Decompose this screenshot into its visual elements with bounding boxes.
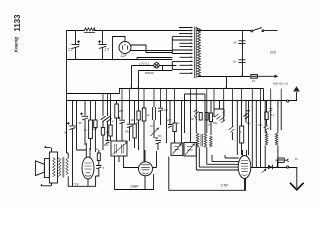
- speaker LS driver: [44, 159, 49, 178]
- wire transformer tap to bus1: [226, 77, 228, 89]
- resistor R16: [97, 153, 100, 161]
- IF transformer T2 winding a: [196, 133, 199, 147]
- svg-text:25: 25: [232, 40, 237, 44]
- resistor R12: [205, 113, 208, 121]
- wire v76: [76, 101, 78, 151]
- wire 12F to transformer upper: [131, 45, 172, 53]
- svg-text:M: M: [295, 157, 298, 161]
- ground arrow: [290, 183, 304, 190]
- wire T3 leads: [265, 101, 278, 168]
- capacitor C13 pair: [229, 127, 235, 132]
- svg-text:a: a: [112, 120, 114, 123]
- earphone Z1: [278, 158, 284, 162]
- resistor R1: [84, 28, 95, 33]
- wire secondary top to switch: [197, 28, 251, 31]
- resistor R9: [143, 101, 145, 108]
- wire v170: [168, 101, 172, 127]
- wire T4 top: [67, 153, 69, 158]
- wire top bus: [67, 30, 191, 32]
- wire fuse arrow out: [258, 75, 275, 77]
- wire left frame: [66, 31, 68, 154]
- capacitor C7: [119, 101, 125, 141]
- speaker terminal bottom: [41, 184, 47, 186]
- svg-text:1: 1: [240, 130, 242, 134]
- IF transformer T3 winding b: [275, 133, 278, 145]
- capacitor C2 electrolytic: [99, 31, 107, 60]
- junction dots top bus: [75, 30, 77, 32]
- junction dot mains: [241, 75, 243, 77]
- svg-text:1133: 1133: [13, 14, 22, 32]
- diode D1 arrow: [268, 165, 272, 169]
- wire speaker to terminals: [47, 148, 52, 186]
- tube V1 grid: [85, 163, 92, 176]
- svg-text:F1: F1: [252, 79, 256, 83]
- wire mains drop: [242, 31, 244, 77]
- junction dots bus1: [130, 87, 132, 89]
- arrow up B+: [293, 86, 300, 91]
- IF T2 core: [201, 134, 202, 147]
- capacitor C4: [239, 60, 246, 63]
- svg-text:4x6 (1)+ x2: 4x6 (1)+ x2: [273, 82, 288, 86]
- speaker LS cone: [35, 161, 44, 176]
- IF transformer box1: [111, 141, 127, 156]
- capacitor C3: [239, 41, 246, 44]
- resistor R6: [116, 101, 118, 104]
- wire v246: [245, 101, 247, 122]
- svg-text:50: 50: [79, 121, 83, 125]
- trimmer arrow: [262, 169, 267, 173]
- wire T4 secondary bottom: [67, 176, 69, 186]
- capacitor C10: [158, 101, 163, 125]
- wire bus1 step: [120, 89, 264, 94]
- wire second bus: [67, 59, 173, 61]
- wire ground loop U1: [68, 176, 95, 186]
- lamp LA pilot: [154, 63, 159, 68]
- svg-text:50μ: 50μ: [246, 121, 251, 125]
- wire v248: [248, 101, 250, 155]
- tube V1 leads: [77, 143, 91, 186]
- svg-text:12V 0,1: 12V 0,1: [139, 62, 150, 66]
- wire top feed V3: [225, 155, 239, 158]
- plus C2: [98, 40, 101, 43]
- title Koenig 1133 (rotated): [13, 14, 22, 53]
- resistor R13: [210, 101, 212, 113]
- wire T3 secondary stubs: [271, 101, 282, 131]
- tube U1 rectifier 12F: [119, 42, 131, 54]
- capacitor C14 electrolytic: [237, 101, 250, 155]
- svg-text:13BF: 13BF: [130, 185, 139, 189]
- wire 12F anode loop: [113, 37, 126, 60]
- wire v166: [166, 101, 168, 143]
- svg-text:5n: 5n: [191, 117, 195, 121]
- resistor R14: [241, 101, 243, 126]
- wire bus2: [67, 100, 287, 102]
- svg-text:220: 220: [269, 51, 276, 55]
- output transformer T4 primary: [59, 158, 61, 176]
- wire bus2 to arrow: [289, 92, 297, 101]
- terminal circle output: [287, 166, 289, 168]
- svg-text:Koenig: Koenig: [13, 37, 18, 53]
- wire lamp left: [132, 66, 154, 89]
- variable capacitor CV2: [184, 143, 196, 157]
- wire heater return: [139, 66, 173, 89]
- wire v219: [219, 101, 221, 109]
- oscillator box frame: [185, 94, 206, 133]
- output transformer T4 secondary: [66, 158, 68, 175]
- resistor R4: [101, 101, 108, 128]
- RC block R15: [265, 112, 268, 120]
- svg-text:1k: 1k: [177, 121, 180, 125]
- svg-text:2M: 2M: [118, 109, 124, 113]
- capacitor C11: [194, 109, 199, 120]
- IF transformer T2 winding b: [204, 133, 207, 147]
- wire ground loop U2: [115, 156, 154, 190]
- svg-text:50μ: 50μ: [213, 121, 218, 125]
- fuse F1: [251, 74, 258, 78]
- svg-text:7 TF: 7 TF: [72, 183, 80, 187]
- speaker terminal top: [45, 146, 51, 148]
- svg-text:2n: 2n: [83, 128, 87, 132]
- wire v190: [190, 101, 192, 142]
- tube V2 grid: [141, 165, 150, 174]
- detector cap C15: [264, 125, 270, 130]
- svg-text:M6010: M6010: [145, 71, 154, 75]
- terminal circle bus2: [287, 100, 289, 102]
- tube V3 grid: [241, 161, 248, 176]
- capacitor C1 electrolytic: [72, 31, 80, 60]
- wire v260: [260, 101, 262, 167]
- tube V2 13BF envelope: [139, 162, 153, 176]
- svg-text:4n7: 4n7: [167, 118, 172, 122]
- svg-text:1k: 1k: [147, 113, 151, 117]
- resistor R7: [134, 101, 136, 124]
- svg-text:50: 50: [64, 131, 68, 135]
- svg-text:2,5: 2,5: [104, 48, 110, 52]
- svg-text:5: 5: [103, 166, 105, 170]
- capacitor C12 pair: [215, 114, 226, 123]
- wire v256: [255, 101, 257, 167]
- wire heater tap: [137, 58, 172, 60]
- capacitor C16: [96, 166, 102, 177]
- wire to ground: [289, 168, 297, 189]
- transformer T1 core: [195, 27, 197, 79]
- wire left frame lower: [66, 101, 68, 154]
- speaker LS frame: [49, 152, 57, 183]
- svg-text:2n: 2n: [232, 59, 237, 63]
- wire box1 down: [118, 156, 120, 162]
- variable capacitor CV1: [171, 143, 183, 156]
- wire ground loop U3: [169, 157, 246, 191]
- svg-text:12F: 12F: [121, 54, 128, 58]
- plus C1: [77, 40, 80, 43]
- resistor R2: [90, 101, 92, 120]
- switch S1: [251, 30, 253, 32]
- wire rail ties: [122, 89, 281, 101]
- capacitor C9 electrolytic: [155, 138, 161, 150]
- capacitor C6 electrolytic: [82, 101, 88, 145]
- wire T2a leads: [196, 101, 207, 170]
- svg-text:50n: 50n: [125, 130, 130, 134]
- resistor R5: [110, 101, 112, 125]
- svg-text:47n: 47n: [258, 123, 263, 127]
- capacitor C8: [127, 101, 133, 141]
- transformer T1 primary taps: [172, 27, 193, 75]
- junction dots bus2: [102, 100, 282, 102]
- wire v252: [251, 101, 253, 167]
- tube V3 2NF envelope: [238, 156, 251, 179]
- wire lamp right: [159, 65, 176, 67]
- coil L1: [153, 101, 156, 138]
- svg-text:2n: 2n: [149, 124, 153, 128]
- resistor R3: [94, 101, 96, 121]
- svg-text:2,5: 2,5: [67, 48, 73, 52]
- resistor R8: [138, 101, 140, 111]
- wire speaker links: [58, 158, 59, 176]
- tube V2 leads: [124, 150, 157, 190]
- svg-text:2 NF: 2 NF: [220, 183, 230, 187]
- misc small value labels: [83, 111, 298, 161]
- junction dot output: [276, 166, 278, 168]
- wire grid lines to V3: [196, 148, 239, 171]
- svg-text:+: +: [233, 125, 235, 128]
- resistor R11: [199, 113, 202, 121]
- wire bus1 left: [67, 93, 120, 95]
- capacitor C5 electrolytic: [69, 101, 75, 187]
- tube V1 7TF envelope: [82, 157, 94, 179]
- oscillator coil L2: [210, 136, 213, 147]
- svg-text:50: 50: [158, 134, 161, 138]
- wire v181: [181, 101, 183, 143]
- wire output line: [251, 167, 287, 169]
- svg-text:50n: 50n: [104, 143, 109, 147]
- wire v107: [105, 101, 112, 144]
- wire 12F to transformer lower: [131, 50, 173, 52]
- wire switch to mains: [264, 30, 278, 32]
- svg-text:4k: 4k: [131, 118, 134, 122]
- transformer T1 secondary winding: [197, 28, 200, 77]
- IF box1 coils: [115, 144, 123, 154]
- resistor R10: [174, 101, 176, 124]
- wire v224: [223, 101, 225, 121]
- output transformer T4 core: [63, 157, 64, 178]
- tube V3 leads: [243, 150, 247, 190]
- speaker coil: [53, 158, 56, 177]
- wire secondary bottom line: [197, 76, 250, 78]
- wire bus1 drop right: [263, 89, 265, 101]
- IF transformer T3 winding a: [265, 133, 268, 145]
